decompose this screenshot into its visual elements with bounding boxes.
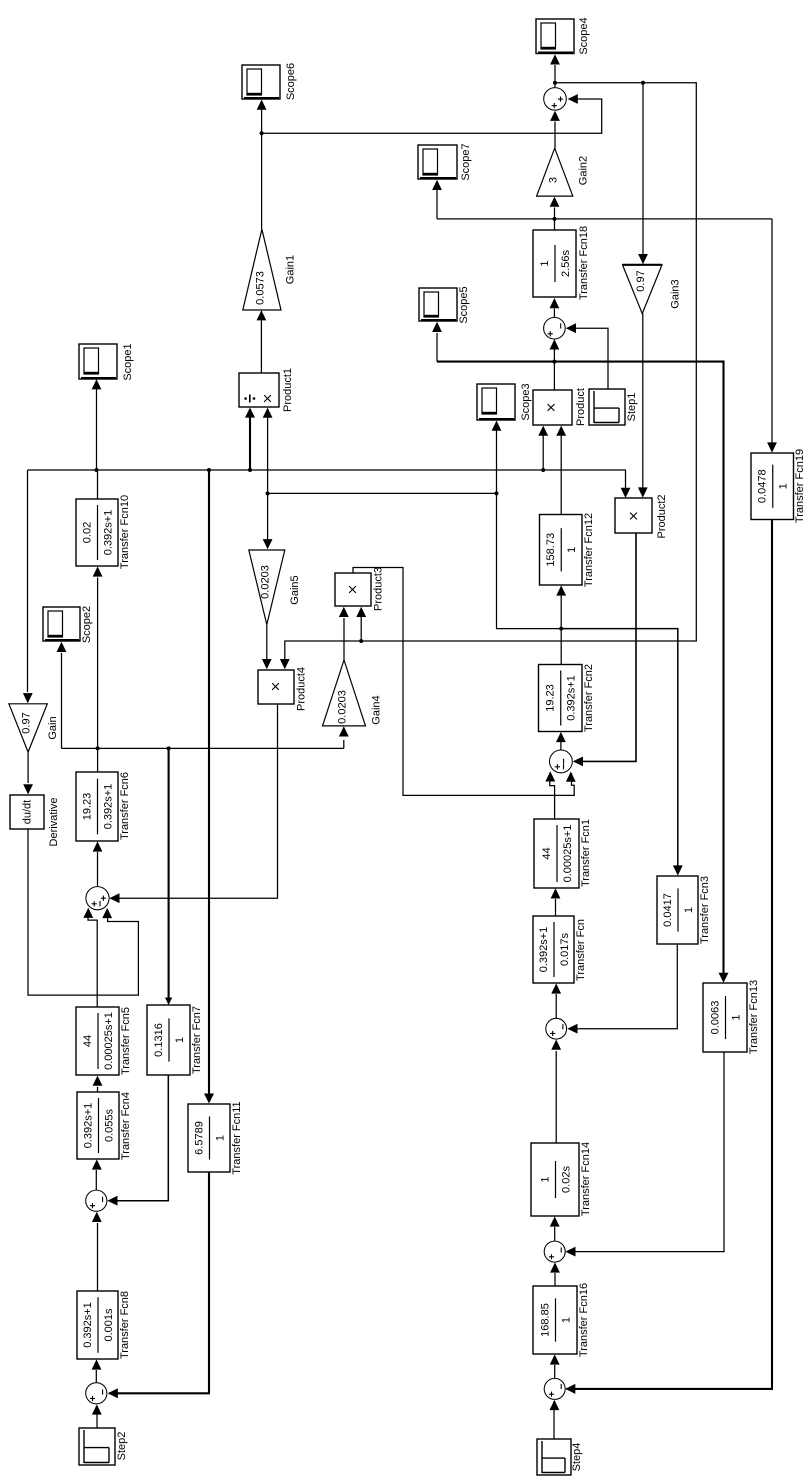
- gain Gain2 value 3 (points up): [537, 148, 590, 196]
- sum junction Sum F (to Transfer Fcn14): [544, 1241, 565, 1262]
- scope block Scope3: [477, 383, 532, 420]
- transfer function Transfer Fcn1 44/0.00025s+1: [534, 819, 592, 888]
- wire: Transfer Fcn13 output down and left into Sum F right input: [565, 1052, 724, 1257]
- svg-text:Transfer Fcn5: Transfer Fcn5: [120, 1007, 132, 1075]
- transfer function Transfer Fcn4 0.392s+1/0.055s: [77, 1092, 132, 1160]
- svg-text:44: 44: [541, 847, 553, 859]
- wire: y=219 link line from Scope7 to Transfer Fcn19: [432, 180, 777, 453]
- product block Product3: [335, 567, 384, 611]
- sum junction Sum G (to Transfer Fcn16): [544, 1378, 565, 1399]
- sum junction Sum H (to Transfer Fcn4): [86, 1190, 107, 1211]
- svg-text:Product3: Product3: [372, 567, 384, 611]
- wire: Sum H output up into Transfer Fcn4: [92, 1159, 102, 1189]
- wire: link from Scope6 node right and up into Sum A right input: [262, 94, 602, 133]
- svg-text:0.055s: 0.055s: [103, 1108, 115, 1142]
- svg-text:Transfer Fcn8: Transfer Fcn8: [119, 1291, 131, 1359]
- svg-text:6.5789: 6.5789: [193, 1121, 205, 1155]
- transfer function Transfer Fcn11 6.5789/1: [188, 1101, 243, 1174]
- svg-text:3: 3: [547, 177, 559, 183]
- svg-text:Transfer Fcn18: Transfer Fcn18: [578, 226, 590, 300]
- svg-text:0.0478: 0.0478: [757, 469, 769, 503]
- svg-text:0.392s+1: 0.392s+1: [566, 675, 578, 721]
- wire: down to Gain5 input: [263, 493, 273, 549]
- svg-text:44: 44: [82, 1035, 94, 1047]
- svg-text:0.0063: 0.0063: [709, 1001, 721, 1035]
- wire: Gain2 output up into Sum A bottom: [550, 111, 560, 149]
- svg-text:Derivative: Derivative: [48, 798, 60, 847]
- wire: Sum G output up into Transfer Fcn16: [550, 1354, 560, 1378]
- wire: Transfer Fcn12 output up to Product right input: [556, 426, 566, 515]
- node: junction branch down to Transfer Fcn7: [167, 746, 171, 750]
- svg-text:Transfer Fcn3: Transfer Fcn3: [699, 876, 711, 944]
- scope block Scope7: [418, 143, 472, 180]
- wire: up to Product3 right input: [356, 607, 366, 641]
- wire: output net right along y=83 then down y=641 line feeding Product4/Product3: [280, 83, 696, 669]
- svg-text:Transfer Fcn19: Transfer Fcn19: [794, 449, 806, 523]
- svg-text:Gain5: Gain5: [289, 575, 301, 604]
- wire: down then right joining Transfer Fcn2 output node: [497, 493, 562, 628]
- transfer function Transfer Fcn8 0.392s+1/0.001s: [77, 1291, 131, 1359]
- scope block Scope4: [536, 17, 590, 54]
- scope block Scope5: [419, 286, 470, 323]
- wire: distribution line of Transfer Fcn10 output at y=470 ending into Product2 left input: [28, 470, 631, 498]
- wire: Gain3 output down to Product2 right input: [638, 314, 648, 498]
- wire: bold branch down to Transfer Fcn11 top (flipped block): [204, 470, 214, 1104]
- gain Gain3 value 0.97 (points down): [623, 265, 682, 314]
- transfer function Transfer Fcn18 1/2.56s: [533, 226, 590, 300]
- svg-text:1: 1: [539, 260, 551, 266]
- svg-text:0.392s+1: 0.392s+1: [102, 784, 114, 830]
- transfer function Transfer Fcn14 1/0.02s: [531, 1142, 592, 1216]
- wire: Transfer Fcn output up into Transfer Fcn1: [551, 888, 561, 916]
- product block Product2: [615, 494, 668, 538]
- transfer function Transfer Fcn2 19.23/0.392s+1: [539, 664, 595, 732]
- svg-text:Step1: Step1: [626, 393, 638, 422]
- transfer function Transfer Fcn12 158.73/1: [540, 513, 595, 587]
- svg-text:Step2: Step2: [116, 1432, 128, 1461]
- node: junction branch up to Product3 right input on y=641 line: [359, 639, 363, 643]
- transfer function Transfer Fcn3 0.0417/1: [657, 876, 711, 944]
- wire: branch up to Scope1: [92, 379, 102, 470]
- wire: Product4 output down and left into Sum D right input: [109, 704, 277, 903]
- svg-text:Gain4: Gain4: [370, 695, 382, 724]
- node: junction at Scope3 riser: [495, 491, 499, 495]
- svg-text:Transfer Fcn11: Transfer Fcn11: [231, 1101, 243, 1174]
- svg-text:Product1: Product1: [282, 368, 294, 412]
- svg-text:Gain1: Gain1: [284, 255, 296, 284]
- svg-text:Scope3: Scope3: [520, 383, 532, 420]
- wire: bold line right and down to Transfer Fcn13 top (flipped): [554, 362, 728, 983]
- node: junction branch up to Product left input: [541, 468, 545, 472]
- svg-text:0.97: 0.97: [635, 270, 647, 291]
- wire: Step1 output up and left into Sum B right input: [566, 323, 608, 389]
- svg-text:Scope1: Scope1: [122, 343, 134, 380]
- wire: Transfer Fcn2 output net horizontal y=493 from Product1 right input corner to Scope3 riser: [268, 492, 497, 494]
- wire: Product2 output down and left into Sum C right input: [573, 533, 636, 766]
- svg-text:0.0203: 0.0203: [336, 690, 348, 724]
- wire: bold branch up to Product1 left input: [245, 408, 255, 470]
- node: junction on Transfer Fcn2 output: [559, 627, 563, 631]
- svg-text:0.0203: 0.0203: [259, 565, 271, 599]
- node: junction Transfer Fcn6 output to y=748 line: [96, 746, 100, 750]
- wire: Transfer Fcn19 output down and left into Sum G right input (bold): [565, 520, 772, 1394]
- svg-text:Gain: Gain: [47, 716, 59, 739]
- svg-text:Scope4: Scope4: [578, 17, 590, 54]
- wire: Transfer Fcn6 output up into Transfer Fcn10 (junction at y=748): [93, 566, 103, 772]
- node: junction for Gain3 branch: [641, 81, 645, 85]
- node: junction Scope1 branch: [95, 468, 99, 472]
- wire: Transfer Fcn16 output up into Sum F bottom: [550, 1262, 560, 1286]
- svg-text:168.85: 168.85: [539, 1303, 551, 1337]
- svg-text:0.1316: 0.1316: [153, 1023, 165, 1057]
- svg-text:19.23: 19.23: [81, 793, 93, 821]
- wire: Transfer Fcn8 output up into Sum H bottom: [92, 1212, 102, 1291]
- gain Gain value 0.97 (points down): [9, 704, 59, 752]
- node: junction bold branch to Transfer Fcn11: [207, 468, 211, 472]
- wire: branch up to Product left input: [538, 426, 548, 470]
- transfer function Transfer Fcn16 168.85/1: [533, 1283, 590, 1357]
- scope block Scope1: [79, 343, 134, 380]
- svg-text:2.56s: 2.56s: [560, 250, 572, 277]
- svg-text:Transfer Fcn: Transfer Fcn: [575, 919, 587, 981]
- node: junction at Product1-right/Gain5 corner: [266, 491, 270, 495]
- gain Gain4 value 0.0203 (points up): [323, 660, 383, 726]
- wire: Transfer Fcn10 output down-join to distribution line: [97, 470, 99, 499]
- product block Product1: [239, 368, 294, 412]
- wire: Transfer Fcn1 output up with jog into Sum C bottom-left input: [545, 771, 555, 819]
- wire: Transfer Fcn3 output down and left into Sum E right input: [567, 944, 677, 1034]
- wire: Transfer Fcn14 output up into Sum E bottom: [551, 1040, 561, 1144]
- node: junction on Scope6 feed line: [260, 131, 264, 135]
- node: junction on Scope4 feed: [553, 81, 557, 85]
- wire: Transfer Fcn4 output up into Transfer Fcn5: [93, 1076, 103, 1093]
- wire: Gain5 output down to Product4 left input: [262, 625, 272, 670]
- node: junction on Product output: [552, 360, 556, 364]
- svg-text:0.02s: 0.02s: [560, 1166, 572, 1193]
- wire: Gain4 output up to Product3 left input: [339, 607, 349, 660]
- svg-text:Transfer Fcn13: Transfer Fcn13: [748, 980, 760, 1054]
- svg-text:Scope6: Scope6: [285, 63, 297, 100]
- wire: Gain 0.97 output down into Derivative: [23, 752, 33, 794]
- wire: Sum D output up into Transfer Fcn6: [93, 841, 103, 886]
- scope block Scope6: [242, 63, 297, 100]
- wire: branch down into Gain3 top: [638, 83, 648, 264]
- wire: up to Scope3: [492, 421, 502, 494]
- svg-text:1: 1: [778, 483, 790, 489]
- svg-text:0.392s+1: 0.392s+1: [82, 1302, 94, 1348]
- step source Step4: [537, 1439, 583, 1475]
- wire: Sum I output up into Transfer Fcn8: [92, 1359, 102, 1382]
- wire: Transfer Fcn5 output up with jog into Sum D bottom-left input: [83, 908, 97, 1007]
- svg-text:0.02: 0.02: [81, 522, 93, 543]
- scope block Scope2: [43, 606, 93, 643]
- node: junction bold branch to Product1 left input: [248, 468, 252, 472]
- wire: Gain1 output up to Scope6 (junction at 133): [257, 100, 267, 230]
- svg-text:0.97: 0.97: [20, 712, 32, 733]
- wire: Product output up into Sum B (junction to bold Scope5/TF13 line): [550, 339, 560, 390]
- svg-text:Transfer Fcn4: Transfer Fcn4: [120, 1092, 132, 1160]
- svg-text:19.23: 19.23: [545, 684, 557, 712]
- wire: Step4 output up into Sum G bottom: [550, 1400, 560, 1439]
- transfer function Transfer Fcn7 0.1316/1: [147, 1005, 203, 1075]
- sum junction Sum E (to Transfer Fcn): [546, 1018, 567, 1039]
- wire: Transfer Fcn7 output down and left into Sum H right input: [107, 1075, 168, 1206]
- wire: left end of distribution line down to Gain 0.97 input: [23, 470, 33, 703]
- svg-text:Transfer Fcn14: Transfer Fcn14: [580, 1142, 592, 1216]
- svg-text:Step4: Step4: [571, 1443, 583, 1472]
- sum junction Sum D (to Transfer Fcn6): [86, 887, 109, 910]
- step source Step2: [79, 1428, 128, 1465]
- wire: Transfer Fcn18 output up to Gain2 (junction at y=219): [550, 197, 560, 230]
- svg-text:0.017s: 0.017s: [559, 932, 571, 966]
- svg-text:1: 1: [730, 1014, 742, 1020]
- svg-text:Transfer Fcn12: Transfer Fcn12: [583, 513, 595, 587]
- wire: up to Product1 right input: [263, 408, 273, 494]
- wire: Step2 output up into Sum I bottom: [92, 1404, 102, 1428]
- wire: Sum B output up into Transfer Fcn18: [550, 298, 560, 317]
- derivative block du/dt: [10, 795, 60, 846]
- gain Gain5 value 0.0203 (points down): [249, 550, 301, 625]
- wire: Transfer Fcn11 output down and left into Sum I right input (bold): [108, 1172, 209, 1398]
- svg-text:Product4: Product4: [295, 667, 307, 711]
- svg-text:0.0573: 0.0573: [254, 271, 266, 305]
- svg-text:Transfer Fcn16: Transfer Fcn16: [578, 1283, 590, 1357]
- wire: Product3 output feedback path into Sum C bottom-right input: [353, 568, 576, 796]
- svg-text:0.392s+1: 0.392s+1: [102, 510, 114, 556]
- svg-text:Transfer Fcn6: Transfer Fcn6: [119, 772, 131, 840]
- product block Product4: [258, 667, 307, 711]
- svg-text:Transfer Fcn2: Transfer Fcn2: [583, 664, 595, 732]
- wire: Derivative output down, right, up into Sum D bottom-right input: [28, 829, 138, 995]
- svg-text:1: 1: [683, 907, 695, 913]
- svg-text:Transfer Fcn10: Transfer Fcn10: [119, 495, 131, 569]
- wire: Transfer Fcn2 output extension right and down to Transfer Fcn3 top (flipped): [561, 629, 683, 876]
- transfer function Transfer Fcn19 0.0478/1: [751, 449, 806, 523]
- gain Gain1 value 0.0573 (points up): [243, 229, 297, 310]
- wire: Sum F output up into Transfer Fcn14: [550, 1216, 560, 1241]
- svg-text:0.00025s+1: 0.00025s+1: [562, 825, 574, 883]
- sum junction Sum B (to Transfer Fcn18): [544, 317, 566, 339]
- svg-text:158.73: 158.73: [545, 533, 557, 567]
- svg-text:Transfer Fcn1: Transfer Fcn1: [580, 819, 592, 887]
- svg-text:Product2: Product2: [656, 494, 668, 538]
- node: junction on Transfer Fcn18 output: [553, 217, 557, 221]
- svg-text:Transfer Fcn7: Transfer Fcn7: [191, 1006, 203, 1074]
- transfer function Transfer Fcn6 19.23/0.392s+1: [76, 772, 131, 841]
- sum junction Sum C (to Transfer Fcn2): [550, 750, 573, 773]
- transfer function Transfer Fcn5 44/0.00025s+1: [76, 1007, 132, 1075]
- svg-text:0.00025s+1: 0.00025s+1: [103, 1012, 115, 1070]
- svg-text:0.392s+1: 0.392s+1: [538, 927, 550, 973]
- sum junction Sum A (to Scope4): [544, 88, 567, 111]
- product block Product: [533, 388, 587, 426]
- wire: Sum A output up into Scope4: [550, 54, 560, 87]
- svg-text:Product: Product: [575, 388, 587, 426]
- svg-text:Gain3: Gain3: [669, 279, 681, 308]
- svg-text:0.0417: 0.0417: [662, 893, 674, 927]
- svg-text:Scope5: Scope5: [458, 286, 470, 323]
- svg-text:Gain2: Gain2: [577, 156, 589, 185]
- svg-text:1: 1: [174, 1037, 186, 1043]
- svg-text:Scope7: Scope7: [460, 143, 472, 180]
- svg-text:0.001s: 0.001s: [103, 1308, 115, 1342]
- transfer function Transfer Fcn10 0.02/0.392s+1: [76, 495, 131, 569]
- wire: y=748 line from Scope2 to Gain4 input: [57, 642, 349, 749]
- svg-text:du/dt: du/dt: [21, 800, 33, 824]
- transfer function Transfer Fcn 0.392s+1/0.017s: [533, 916, 587, 983]
- svg-text:0.392s+1: 0.392s+1: [82, 1103, 94, 1149]
- wire: Sum C output up into Transfer Fcn2: [556, 732, 566, 750]
- wire: branch down into Transfer Fcn7 top (flipped, bold): [165, 748, 172, 1005]
- wire: Transfer Fcn2 output up into Transfer Fcn12: [556, 585, 566, 664]
- wire: Product1 output up to Gain1 base: [257, 310, 267, 373]
- step source Step1: [589, 389, 638, 425]
- svg-text:1: 1: [566, 547, 578, 553]
- wire: bold line left to Scope5: [432, 322, 554, 362]
- wire: Sum E output up into Transfer Fcn: [551, 983, 561, 1018]
- transfer function Transfer Fcn13 0.0063/1: [703, 980, 760, 1054]
- svg-text:1: 1: [539, 1176, 551, 1182]
- sum junction Sum I (to Transfer Fcn8): [86, 1383, 107, 1404]
- svg-text:Scope2: Scope2: [81, 606, 93, 643]
- svg-text:1: 1: [560, 1317, 572, 1323]
- svg-text:1: 1: [214, 1135, 226, 1141]
